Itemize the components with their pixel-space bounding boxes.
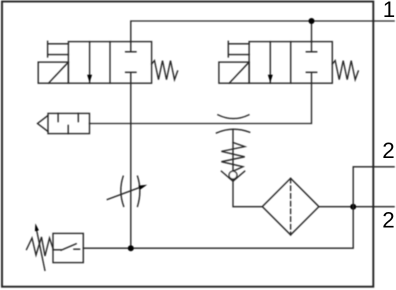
- svg-text:1: 1: [383, 0, 395, 22]
- wire valve1 top port to port 1: [131, 21, 394, 42]
- valve V2 blocked ports: [306, 42, 316, 84]
- wire regulator drop to filter: [233, 129, 262, 207]
- valve V2 pilot: [228, 41, 249, 57]
- node junction top: [309, 18, 315, 24]
- node junction right: [350, 204, 356, 210]
- svg-text:2: 2: [382, 208, 394, 233]
- wire filter to port 2 lower: [319, 206, 394, 208]
- silencer: [48, 113, 90, 133]
- pressure switch contact: [53, 244, 80, 251]
- valve V1 body: [68, 42, 151, 84]
- pressure switch adjust arrow: [37, 231, 45, 270]
- regulator seat arcs: [218, 115, 249, 119]
- wire valve2 top port stub: [311, 21, 313, 42]
- valve V1 pilot: [48, 41, 69, 57]
- filter: [262, 178, 319, 235]
- valve V1 spring: [152, 61, 178, 80]
- wire valve2 bottom to silencer: [90, 83, 312, 123]
- svg-text:2: 2: [382, 138, 394, 163]
- check valve seat: [221, 171, 244, 181]
- valve V2 body: [249, 42, 332, 84]
- node junction bottom: [128, 245, 134, 251]
- wire valve1 bottom vertical: [130, 83, 132, 248]
- regulator spring: [221, 143, 244, 172]
- valve V1 flow arrow: [89, 42, 91, 84]
- valve V2 flow arrow: [269, 42, 271, 84]
- wire to port 2 upper: [353, 167, 394, 207]
- valve V2 solenoid: [219, 62, 249, 83]
- check valve ball: [229, 171, 237, 179]
- wire bottom run: [83, 207, 353, 249]
- valve V1 blocked ports: [126, 42, 136, 84]
- pressure switch box: [53, 233, 83, 262]
- flow control throttle: [121, 176, 124, 206]
- pressure switch spring: [27, 237, 54, 256]
- valve V2 spring: [332, 61, 358, 80]
- valve V1 solenoid: [38, 62, 68, 83]
